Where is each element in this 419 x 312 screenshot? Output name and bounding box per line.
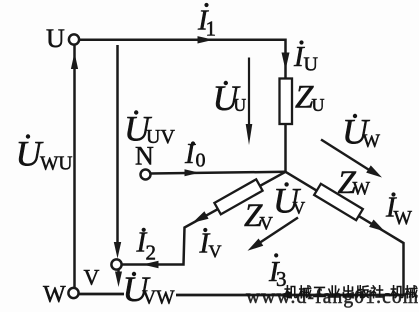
svg-text:VW: VW — [142, 288, 175, 309]
svg-text:1: 1 — [206, 17, 217, 41]
svg-text:2: 2 — [146, 241, 157, 265]
svg-text:W: W — [363, 132, 381, 152]
svg-text:0: 0 — [196, 150, 206, 172]
svg-text:V: V — [293, 198, 306, 218]
svg-text:UV: UV — [146, 126, 175, 148]
svg-text:W: W — [353, 180, 371, 200]
svg-text:W: W — [43, 282, 66, 308]
svg-text:U: U — [234, 95, 247, 115]
svg-text:www.d-fang01.com: www.d-fang01.com — [246, 287, 418, 308]
svg-text:V: V — [260, 215, 274, 235]
svg-text:V: V — [209, 242, 222, 262]
svg-text:U: U — [304, 54, 319, 76]
svg-text:V: V — [84, 265, 100, 290]
svg-text:U: U — [312, 95, 325, 115]
svg-text:U: U — [46, 24, 65, 53]
svg-text:WU: WU — [40, 154, 73, 175]
svg-text:W: W — [394, 208, 413, 229]
